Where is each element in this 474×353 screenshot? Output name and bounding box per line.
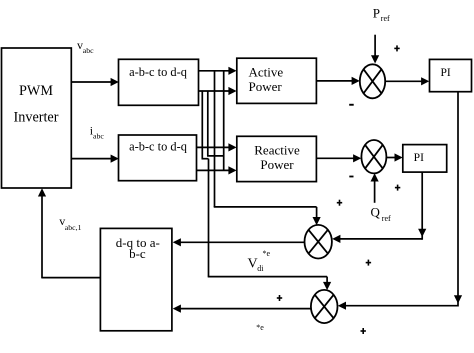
wire Qref up arrow: [371, 173, 379, 203]
wire P summing junction to PI: [385, 77, 429, 85]
svg-text:PI: PI: [440, 67, 450, 79]
svg-text:Power: Power: [260, 157, 294, 172]
svg-text:P: P: [373, 6, 380, 21]
svg-text:di: di: [257, 264, 264, 273]
summing junction P: [360, 64, 385, 98]
wire vertical B jog: [207, 91, 224, 156]
d-q to a-b-c block: [100, 228, 171, 330]
plus sign above M1: [337, 200, 342, 206]
svg-text:a-b-c to d-q: a-b-c to d-q: [129, 139, 187, 153]
svg-text:V: V: [248, 257, 258, 272]
minus sign below Q junction: [349, 176, 353, 178]
svg-text:Reactive: Reactive: [254, 142, 300, 157]
wire PWM to abc-dq current: [71, 155, 119, 163]
wire vertical D from vd line to iq input line: [223, 71, 225, 171]
label V_di with superscript: [248, 249, 271, 273]
wire id to Reactive Power: [197, 143, 237, 151]
label v_abc1: [59, 214, 81, 232]
svg-text:ref: ref: [382, 214, 391, 223]
svg-text:Q: Q: [371, 205, 381, 220]
multiplier M2: [311, 290, 338, 323]
svg-text:abc: abc: [93, 131, 104, 140]
plus sign near Qref: [395, 185, 400, 191]
plus sign right of M2: [361, 328, 366, 334]
summing junction Q: [361, 140, 386, 173]
svg-text:a-b-c to d-q: a-b-c to d-q: [129, 65, 187, 79]
wire Reactive Power to Q summing junction: [316, 154, 361, 162]
svg-text:Power: Power: [249, 79, 283, 94]
svg-text:PI: PI: [414, 152, 424, 164]
PI block Q-loop: [403, 145, 447, 173]
plus sign above M2 output: [277, 295, 282, 301]
PWM Inverter block: [2, 48, 72, 188]
label i_abc: [90, 123, 105, 140]
wire multiplier M1 output to d-q block: [173, 238, 305, 246]
multiplier M1: [305, 225, 332, 259]
wire vertical C from vd line to multiplier M1 top: [214, 71, 321, 225]
plus sign right of M1: [366, 260, 371, 266]
wire iq to Reactive Power: [197, 166, 237, 174]
svg-text:PWM: PWM: [19, 83, 53, 99]
wire vq to Active Power: [199, 87, 237, 95]
wire Q summing junction to PI: [386, 153, 402, 161]
svg-text:*e: *e: [256, 323, 264, 332]
svg-text:abc: abc: [83, 46, 94, 55]
Reactive Power block: [237, 136, 317, 181]
wire PWM to abc-dq voltage: [71, 78, 119, 86]
PI block P-loop: [430, 59, 472, 91]
label P_ref: [373, 6, 390, 23]
wire vd to Active Power: [199, 67, 237, 75]
wire Pref down arrow: [371, 35, 379, 64]
minus sign below P junction: [349, 104, 354, 106]
a-b-c to d-q block (current): [119, 135, 197, 181]
svg-text:*e: *e: [263, 249, 271, 258]
label v_abc: [77, 38, 94, 55]
label star-e bottom: [256, 323, 264, 332]
svg-text:abc,1: abc,1: [65, 223, 82, 232]
plus sign near Pref: [394, 45, 399, 51]
svg-text:Active: Active: [249, 64, 284, 79]
svg-text:b-c: b-c: [129, 246, 146, 261]
wire PI1 down to multiplier M2: [338, 92, 462, 310]
a-b-c to d-q block (voltage): [119, 59, 199, 105]
svg-text:Inverter: Inverter: [14, 110, 59, 126]
Active Power block: [237, 58, 317, 103]
wire vertical A from vq line to multiplier M2 top: [202, 91, 332, 290]
wire PI2 down to multiplier M1: [332, 172, 426, 243]
wire d-q block output up to PWM inverter: [38, 188, 101, 278]
label Q_ref: [371, 205, 392, 223]
wire multiplier M2 output to d-q block: [173, 305, 311, 313]
wire Active Power to P summing junction: [316, 77, 359, 85]
svg-text:ref: ref: [381, 14, 390, 23]
